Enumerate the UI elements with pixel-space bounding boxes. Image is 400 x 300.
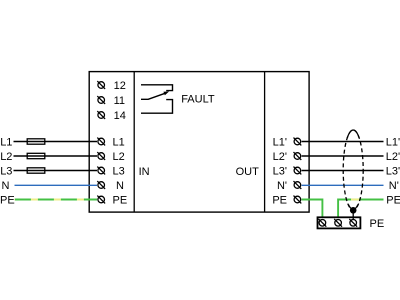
terminal screw 11 (97, 96, 105, 104)
wire N input (blue) (15, 184, 98, 186)
junction dot cable shield to PE (350, 207, 357, 214)
svg-text:11: 11 (114, 95, 125, 107)
terminal screw L2' (294, 152, 302, 160)
wire L1' output (302, 141, 384, 143)
svg-text:L3': L3' (273, 166, 287, 178)
terminal screw L2 (97, 152, 105, 160)
PE bar screw 2 (334, 219, 342, 227)
svg-text:L1': L1' (273, 137, 287, 149)
svg-text:L3: L3 (113, 166, 125, 178)
wire L2' output (302, 155, 384, 157)
wire dot to PE bar (352, 210, 354, 220)
terminal screw N (97, 181, 105, 189)
PE bar screw 3 (349, 219, 357, 227)
svg-text:L2': L2' (386, 151, 400, 163)
svg-text:L2: L2 (113, 151, 125, 163)
terminal screw 14 (97, 111, 105, 119)
terminal screw L1' (294, 138, 302, 146)
terminal screw L3' (294, 167, 302, 175)
svg-text:L2: L2 (0, 151, 12, 163)
relay contact K1 NC side (12) (141, 85, 173, 91)
svg-text:PE: PE (370, 218, 385, 230)
fuse F1 (27, 139, 45, 144)
terminal screw 12 (97, 81, 105, 89)
svg-text:L1: L1 (0, 137, 12, 149)
PE terminal bar (318, 217, 361, 228)
cable grouping ellipse bottom arc (348, 205, 358, 210)
svg-text:PE: PE (113, 195, 128, 207)
divider left column (133, 72, 135, 213)
svg-text:IN: IN (139, 166, 150, 178)
svg-text:N': N' (389, 180, 399, 192)
terminal screw L1 (97, 138, 105, 146)
fuse F2 (27, 153, 45, 158)
wire PE bar screw2 to right edge (green/yellow) (338, 200, 383, 217)
svg-text:FAULT: FAULT (181, 94, 215, 106)
svg-text:14: 14 (114, 110, 126, 122)
svg-text:OUT: OUT (236, 166, 260, 178)
wire L2 input (14, 155, 98, 157)
svg-text:L2': L2' (273, 151, 287, 163)
cable grouping ellipse top arc (347, 130, 359, 138)
svg-text:L3': L3' (386, 166, 400, 178)
terminal screw L3 (97, 167, 105, 175)
relay contact K1 NO side (14) (141, 100, 173, 114)
fuse F3 (27, 168, 45, 173)
svg-text:L1': L1' (386, 137, 400, 149)
svg-text:L3: L3 (0, 166, 12, 178)
device box U1 (89, 72, 309, 213)
svg-text:N: N (2, 180, 10, 192)
cable grouping ellipse (dashed) (343, 130, 363, 210)
terminal screw PE right (294, 196, 302, 204)
svg-text:PE: PE (386, 195, 400, 207)
terminal screw N' (294, 181, 302, 189)
svg-text:N': N' (277, 180, 287, 192)
wire L1 input (14, 141, 98, 143)
wire L3' output (302, 170, 384, 172)
relay contact K1 common arm (11) (141, 91, 169, 99)
svg-text:N: N (116, 180, 124, 192)
wire PE input (green/yellow) (15, 199, 98, 201)
terminal screw PE (97, 196, 105, 204)
PE bar screw 1 (319, 219, 327, 227)
svg-text:12: 12 (114, 80, 126, 92)
svg-text:L1: L1 (113, 137, 125, 149)
svg-text:PE: PE (0, 195, 15, 207)
wire L3 input (14, 170, 98, 172)
svg-text:PE: PE (272, 195, 287, 207)
divider right column (264, 72, 266, 213)
wire N' output (blue) (302, 184, 384, 186)
wire PE output to bar screw1 (green) (302, 200, 323, 217)
